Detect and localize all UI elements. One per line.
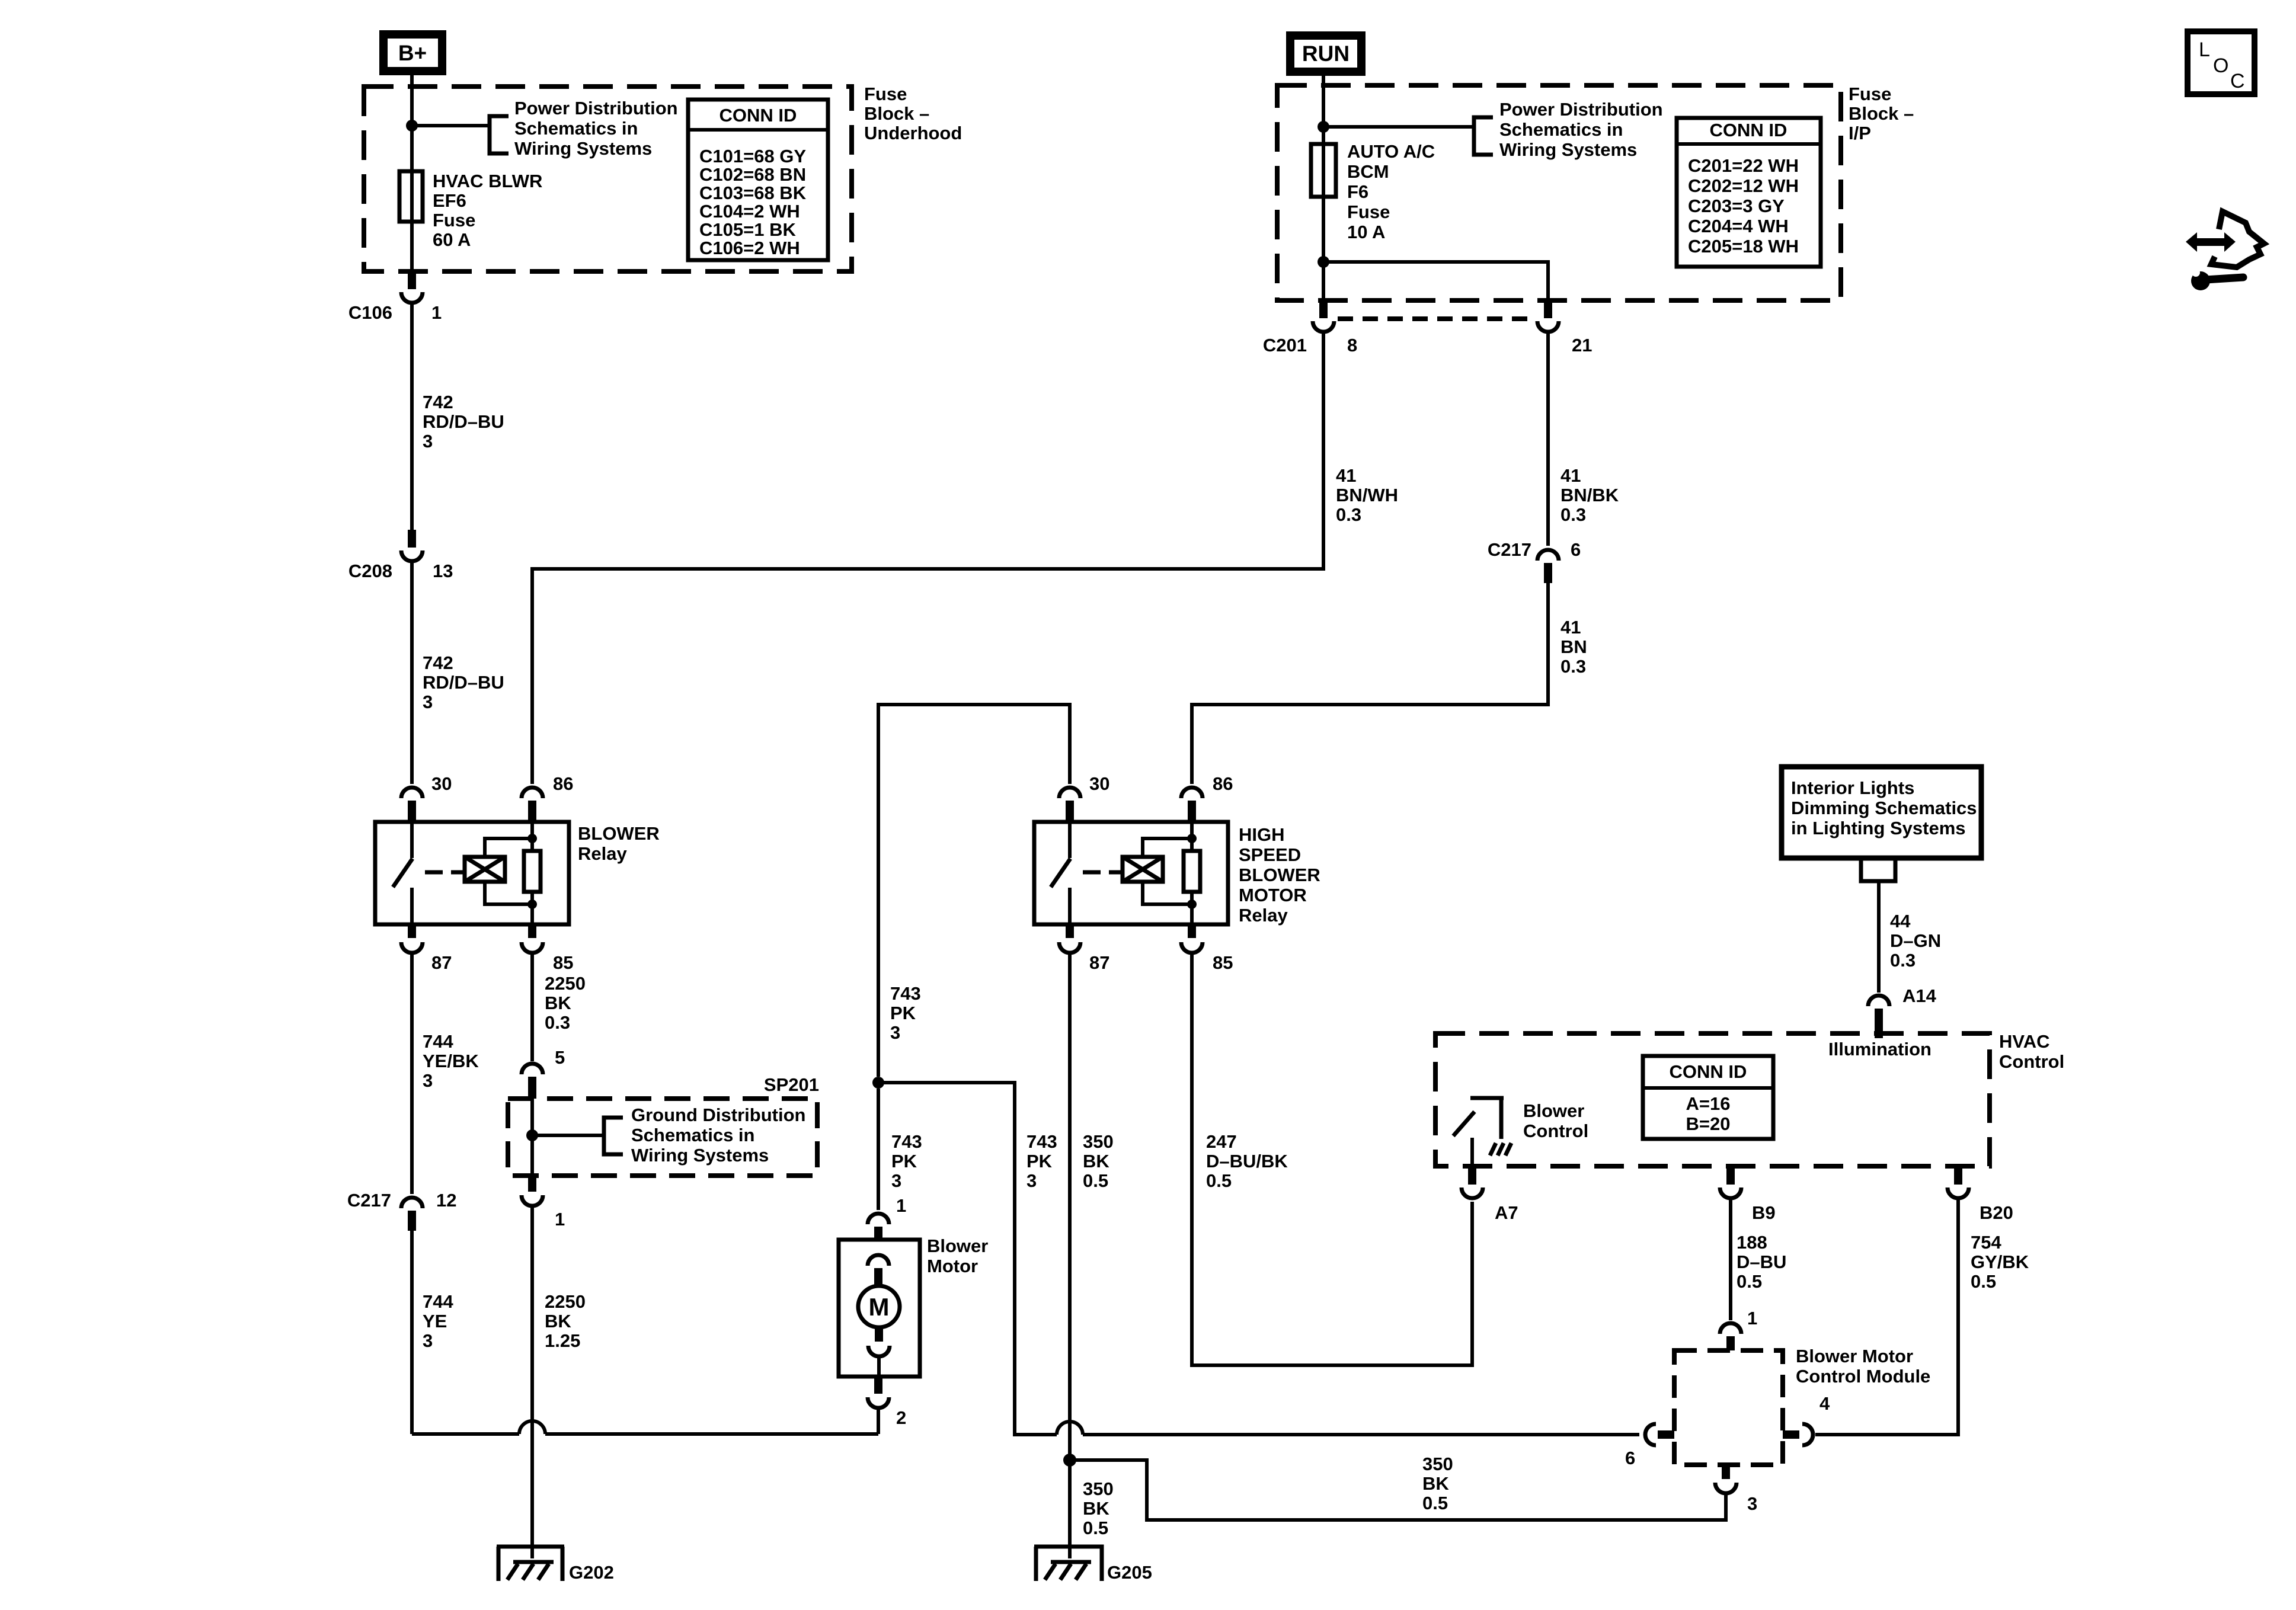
svg-text:BN/WH: BN/WH (1336, 485, 1398, 505)
svg-text:Control: Control (1523, 1121, 1588, 1141)
svg-text:3: 3 (1747, 1493, 1757, 1514)
svg-text:SP201: SP201 (764, 1074, 819, 1095)
motor M symbol (858, 1286, 900, 1327)
svg-text:in Lighting Systems: in Lighting Systems (1791, 818, 1966, 838)
connector pin 5 into SP201 (522, 1064, 543, 1099)
connector C201 pin 8 (1313, 300, 1334, 332)
svg-text:1.25: 1.25 (545, 1330, 580, 1351)
blower motor internal top connector (868, 1255, 889, 1286)
svg-text:8: 8 (1347, 335, 1357, 356)
svg-text:0.5: 0.5 (1971, 1271, 1996, 1292)
relay BLOWER box (375, 822, 569, 924)
svg-text:M: M (869, 1293, 890, 1321)
label 2250 BK 1.25 (545, 1291, 586, 1351)
svg-text:B20: B20 (1980, 1202, 2013, 1223)
svg-text:188: 188 (1737, 1232, 1767, 1253)
splice SP201 dashed box (508, 1099, 817, 1176)
label 41 BN/BK 0.3 (1560, 465, 1619, 525)
interior lights dimming reference box (1782, 767, 1981, 858)
svg-text:D–BU: D–BU (1737, 1251, 1786, 1272)
svg-text:D–BU/BK: D–BU/BK (1206, 1151, 1288, 1172)
svg-text:C208: C208 (348, 561, 392, 581)
svg-text:A7: A7 (1495, 1202, 1518, 1223)
wire 350 BK junction to module pin 3 (1070, 1460, 1726, 1520)
wire RUN to fuse F6 (1322, 72, 1325, 144)
HVAC control dashed box (1435, 1033, 1990, 1166)
svg-text:12: 12 (436, 1190, 456, 1211)
svg-text:247: 247 (1206, 1131, 1237, 1152)
svg-text:2250: 2250 (545, 1291, 586, 1312)
wire 744 YE C217 to ground run (410, 1231, 414, 1434)
svg-text:RD/D–BU: RD/D–BU (423, 672, 504, 693)
connector C208 pin 13 (401, 530, 423, 561)
svg-text:Block –: Block – (1849, 103, 1914, 124)
svg-text:13: 13 (433, 561, 453, 581)
svg-text:87: 87 (1089, 952, 1109, 973)
connector B20 (1948, 1166, 1969, 1198)
svg-text:RUN: RUN (1302, 41, 1350, 66)
wire fuse to C106 (410, 222, 414, 271)
wire 743 PK junction down to motor pin 1 (877, 1089, 880, 1210)
svg-text:G202: G202 (569, 1562, 614, 1583)
blower relay pin 30 connector (401, 788, 423, 822)
module pin 6 connector (1645, 1424, 1674, 1445)
blower motor internal bottom connector (868, 1327, 890, 1356)
svg-text:0.3: 0.3 (1560, 504, 1586, 525)
svg-text:CONN ID: CONN ID (1670, 1061, 1747, 1082)
svg-text:BCM: BCM (1347, 161, 1389, 182)
label 41 BN/WH 0.3 (1336, 465, 1398, 525)
wire 742 RD/D-BU 3 C208 to relay pin 30 (410, 561, 414, 784)
wire junction to schematic reference bracket (right) (1323, 125, 1474, 129)
svg-text:Interior Lights: Interior Lights (1791, 777, 1914, 798)
ground G202 (497, 1544, 564, 1581)
svg-text:AUTO A/C: AUTO A/C (1347, 141, 1435, 162)
svg-text:RD/D–BU: RD/D–BU (423, 411, 504, 432)
svg-text:F6: F6 (1347, 181, 1368, 202)
svg-text:Schematics in: Schematics in (631, 1125, 754, 1145)
svg-text:MOTOR: MOTOR (1239, 885, 1307, 905)
svg-text:0.5: 0.5 (1737, 1271, 1762, 1292)
fork from interior lights box (1861, 858, 1895, 881)
wire motor pin 2 to ground run (877, 1408, 880, 1434)
svg-text:Schematics in: Schematics in (514, 118, 638, 139)
connector A7 (1462, 1166, 1483, 1198)
svg-text:Motor: Motor (927, 1256, 978, 1276)
node junction to pin 21 branch (1318, 256, 1329, 268)
svg-text:Wiring Systems: Wiring Systems (514, 138, 652, 159)
reference bracket power distribution (left) (490, 116, 509, 153)
svg-text:21: 21 (1572, 335, 1592, 356)
svg-text:4: 4 (1819, 1393, 1830, 1414)
ground G205 (1034, 1544, 1102, 1581)
svg-text:0.5: 0.5 (1206, 1170, 1232, 1191)
svg-text:BK: BK (1083, 1151, 1109, 1172)
svg-text:C204=4 WH: C204=4 WH (1688, 216, 1789, 236)
svg-text:350: 350 (1422, 1454, 1453, 1474)
label 743 PK 3 (upper) (890, 983, 921, 1043)
svg-text:Power Distribution: Power Distribution (514, 98, 678, 119)
navigation arrows icon (2186, 212, 2264, 267)
label HVAC BLWR EF6 Fuse 60 A (433, 171, 542, 250)
svg-text:BK: BK (1422, 1473, 1449, 1494)
svg-text:Fuse: Fuse (1849, 84, 1891, 104)
label 754 GY/BK 0.5 (1971, 1232, 2029, 1292)
wire motor to pin 2 (877, 1356, 881, 1377)
label 742 RD/D-BU 3 (lower) (423, 652, 504, 712)
svg-text:3: 3 (1027, 1170, 1037, 1191)
svg-text:CONN ID: CONN ID (1710, 120, 1787, 140)
svg-text:1: 1 (896, 1195, 906, 1216)
connector C106 pin 1 (401, 271, 423, 303)
blower relay actuator dashed link (425, 870, 464, 875)
blower relay switch contact (393, 822, 412, 924)
wire 742 RD/D-BU 3 C106 to C208 (410, 303, 414, 530)
label AUTO A/C BCM F6 Fuse 10 A (1347, 141, 1435, 242)
svg-text:6: 6 (1625, 1448, 1635, 1468)
wire junction to schematic reference bracket (412, 124, 490, 127)
connector C217 pin 12 (401, 1198, 423, 1231)
label Blower Control (1523, 1100, 1588, 1141)
blower relay pin 87 connector (401, 924, 423, 953)
power terminal B+ (383, 34, 442, 71)
blower motor box (839, 1240, 920, 1377)
svg-text:BK: BK (545, 1311, 571, 1331)
svg-text:Wiring Systems: Wiring Systems (631, 1145, 769, 1166)
module pin 3 connector (1715, 1465, 1737, 1493)
svg-text:754: 754 (1971, 1232, 2001, 1253)
label Fuse Block - I/P (1849, 84, 1914, 143)
svg-text:PK: PK (1027, 1151, 1053, 1172)
svg-text:Schematics in: Schematics in (1499, 119, 1623, 140)
svg-text:41: 41 (1560, 465, 1581, 486)
wire through SP201 (530, 1099, 534, 1176)
svg-text:Ground Distribution: Ground Distribution (631, 1105, 805, 1125)
relay HIGH SPEED BLOWER MOTOR box (1034, 822, 1228, 924)
svg-text:EF6: EF6 (433, 190, 466, 211)
label 742 RD/D-BU 3 (upper) (423, 392, 504, 452)
svg-text:B+: B+ (398, 41, 427, 65)
svg-text:CONN ID: CONN ID (720, 105, 797, 126)
HS relay resistor (1184, 822, 1200, 924)
svg-text:BLOWER: BLOWER (1239, 865, 1320, 885)
svg-text:10 A: 10 A (1347, 222, 1385, 242)
svg-text:PK: PK (890, 1003, 916, 1023)
svg-text:3: 3 (890, 1022, 900, 1043)
svg-text:B9: B9 (1752, 1202, 1776, 1223)
label HVAC Control (1999, 1031, 2064, 1072)
fuse block I/P dashed box (1277, 85, 1841, 300)
svg-text:87: 87 (431, 952, 452, 973)
svg-text:Dimming Schematics: Dimming Schematics (1791, 798, 1977, 818)
wire 41 BN 0.3 from C217-6 to high speed relay 86 (1192, 583, 1548, 784)
svg-text:Relay: Relay (1239, 905, 1288, 926)
label BLOWER Relay (578, 823, 660, 864)
svg-text:HVAC: HVAC (1999, 1031, 2050, 1052)
svg-text:3: 3 (423, 692, 433, 712)
svg-text:2250: 2250 (545, 973, 586, 994)
power terminal RUN (1290, 36, 1361, 72)
svg-text:0.5: 0.5 (1083, 1518, 1108, 1538)
CONN ID table HVAC (1643, 1056, 1773, 1139)
fuse F6 AUTO A/C BCM 10A (1311, 144, 1336, 197)
blower relay coil wiring to resistor (485, 834, 537, 909)
wire 44 D-GN 0.3 to A14 (1877, 881, 1881, 993)
wire fuse F6 down to C201 pin 8 (1322, 197, 1325, 300)
svg-text:L: L (2199, 39, 2210, 61)
label Blower Motor (927, 1235, 988, 1276)
wrench icon (2191, 268, 2243, 290)
label 744 YE 3 (423, 1291, 453, 1351)
svg-text:BN: BN (1560, 636, 1587, 657)
svg-text:Fuse: Fuse (864, 84, 907, 104)
svg-text:C105=1 BK: C105=1 BK (699, 219, 796, 240)
blower motor pin 2 connector (868, 1377, 889, 1408)
label 2250 BK 0.3 (545, 973, 586, 1033)
HS relay coil (1123, 857, 1163, 882)
blower relay pin 86 connector (522, 788, 543, 822)
label 188 D-BU 0.5 (1737, 1232, 1786, 1292)
wire 350 BK HS relay 87 to G205 (1068, 953, 1072, 1544)
svg-text:0.5: 0.5 (1422, 1493, 1448, 1513)
svg-text:Blower: Blower (1523, 1100, 1584, 1121)
module pin 4 connector (1783, 1424, 1813, 1445)
blower motor control module dashed box (1674, 1350, 1783, 1465)
svg-text:GY/BK: GY/BK (1971, 1251, 2029, 1272)
svg-text:85: 85 (553, 952, 573, 973)
svg-text:PK: PK (891, 1151, 917, 1172)
connector B9 (1720, 1166, 1741, 1198)
label 350 BK 0.5 (relay leg) (1083, 1131, 1114, 1191)
splice node motor feed (872, 1077, 884, 1089)
svg-text:86: 86 (1213, 773, 1233, 794)
svg-text:BLOWER: BLOWER (578, 823, 660, 844)
connector C217 pin 6 (1537, 550, 1559, 583)
label 743 PK 3 (branch leg) (1027, 1131, 1057, 1191)
wire 2250 BK 1.25 to G202 (530, 1206, 534, 1544)
HS relay pin 85 connector (1181, 924, 1203, 953)
svg-text:HVAC BLWR: HVAC BLWR (433, 171, 542, 191)
svg-text:86: 86 (553, 773, 573, 794)
svg-text:60 A: 60 A (433, 229, 471, 250)
svg-text:YE: YE (423, 1311, 447, 1331)
fuse EF6 HVAC BLWR 60A (399, 171, 423, 222)
HS relay actuator dashed link (1083, 870, 1122, 875)
connector A14 (1868, 996, 1889, 1038)
svg-text:Illumination: Illumination (1828, 1039, 1932, 1060)
svg-text:BN/BK: BN/BK (1560, 485, 1619, 505)
svg-text:C103=68 BK: C103=68 BK (699, 183, 807, 203)
svg-text:C201: C201 (1263, 335, 1307, 356)
svg-text:A14: A14 (1902, 985, 1937, 1006)
label Blower Motor Control Module (1796, 1346, 1930, 1387)
svg-text:0.3: 0.3 (545, 1012, 570, 1033)
label 41 BN 0.3 (1560, 617, 1587, 677)
wire 2250 BK 0.3 relay 85 down (530, 953, 534, 1061)
HS relay switch contact (1051, 822, 1070, 924)
svg-text:41: 41 (1336, 465, 1356, 486)
reference bracket ground distribution (604, 1118, 623, 1154)
HS relay coil wiring to resistor (1143, 834, 1197, 909)
HS relay pin 87 connector (1059, 924, 1080, 953)
module pin 1 connector (1720, 1323, 1741, 1350)
svg-text:I/P: I/P (1849, 123, 1871, 143)
svg-text:743: 743 (1027, 1131, 1057, 1152)
svg-text:C104=2 WH: C104=2 WH (699, 201, 800, 222)
svg-text:C203=3 GY: C203=3 GY (1688, 196, 1785, 216)
svg-text:Power Distribution: Power Distribution (1499, 99, 1663, 120)
fuse block underhood dashed box (364, 87, 852, 271)
svg-text:5: 5 (555, 1047, 565, 1068)
wire splice to ground distribution bracket (532, 1134, 604, 1137)
wire 743 PK branch junction to module pin 6 (hops 350 BK) (878, 1083, 1639, 1435)
svg-text:0.3: 0.3 (1890, 950, 1916, 971)
locator LOC icon box (2188, 31, 2255, 94)
svg-text:HIGH: HIGH (1239, 824, 1285, 845)
svg-text:44: 44 (1890, 911, 1911, 932)
svg-text:744: 744 (423, 1031, 453, 1052)
svg-text:O: O (2213, 55, 2228, 77)
svg-text:Fuse: Fuse (433, 210, 475, 231)
node junction on B+ feed (406, 120, 418, 132)
svg-text:350: 350 (1083, 1478, 1114, 1499)
svg-text:0.3: 0.3 (1336, 504, 1361, 525)
blower motor pin 1 connector (868, 1214, 889, 1240)
svg-text:743: 743 (891, 1131, 922, 1152)
label 743 PK 3 (motor leg) (891, 1131, 922, 1191)
svg-text:A=16: A=16 (1686, 1093, 1731, 1114)
label 350 BK 0.5 (module leg) (1422, 1454, 1453, 1513)
node junction on RUN feed (1318, 121, 1329, 133)
svg-text:Fuse: Fuse (1347, 201, 1390, 222)
wire 188 D-BU B9 to module pin 1 (1729, 1198, 1732, 1320)
svg-text:Relay: Relay (578, 843, 627, 864)
svg-text:D–GN: D–GN (1890, 930, 1941, 951)
svg-text:C202=12 WH: C202=12 WH (1688, 175, 1799, 196)
svg-text:Control Module: Control Module (1796, 1366, 1930, 1387)
svg-text:2: 2 (896, 1407, 906, 1428)
svg-text:Underhood: Underhood (864, 123, 962, 143)
svg-text:YE/BK: YE/BK (423, 1051, 479, 1071)
svg-text:6: 6 (1571, 539, 1581, 560)
svg-text:0.3: 0.3 (1560, 656, 1586, 677)
blower relay coil (465, 857, 505, 882)
label Ground Distribution Schematics in Wiring Systems (631, 1105, 805, 1166)
svg-text:350: 350 (1083, 1131, 1114, 1152)
label Power Distribution Schematics in Wiring Systems (right) (1499, 99, 1663, 160)
svg-text:Wiring Systems: Wiring Systems (1499, 139, 1637, 160)
label 247 D-BU/BK 0.5 (1206, 1131, 1288, 1191)
svg-text:1: 1 (555, 1209, 565, 1230)
svg-text:C217: C217 (347, 1190, 391, 1211)
wire 41 BN/WH 0.3 from C201-8 to blower relay 86 (532, 332, 1323, 784)
svg-text:1: 1 (1747, 1308, 1757, 1329)
label 350 BK 0.5 (ground leg) (1083, 1478, 1114, 1538)
svg-text:C205=18 WH: C205=18 WH (1688, 236, 1799, 257)
svg-text:742: 742 (423, 392, 453, 412)
svg-text:742: 742 (423, 652, 453, 673)
wire 41 BN/BK 0.3 from C201-21 to C217-6 (1546, 332, 1550, 546)
svg-text:BK: BK (1083, 1498, 1109, 1519)
svg-text:3: 3 (423, 431, 433, 452)
connector C201 pin 21 (1537, 300, 1559, 332)
label Power Distribution Schematics in Wiring Systems (left) (514, 98, 678, 159)
label HIGH SPEED BLOWER MOTOR Relay (1239, 824, 1320, 926)
splice node SP201 (526, 1129, 538, 1141)
wire 743 PK from HS relay 30 up-left-down to motor junction (878, 705, 1070, 1077)
wire B+ to fuse EF6 (410, 72, 414, 171)
blower relay pin 85 connector (522, 924, 543, 953)
svg-text:743: 743 (890, 983, 921, 1004)
label Fuse Block - Underhood (864, 84, 962, 143)
svg-text:G205: G205 (1107, 1562, 1152, 1583)
svg-text:C106=2 WH: C106=2 WH (699, 238, 800, 258)
wire 247 D-BU/BK HS relay 85 to A7 (1192, 953, 1472, 1365)
CONN ID table underhood (688, 100, 828, 260)
svg-text:C101=68 GY: C101=68 GY (699, 146, 806, 167)
svg-text:3: 3 (423, 1070, 433, 1091)
svg-text:30: 30 (431, 773, 452, 794)
label 744 YE/BK 3 (423, 1031, 479, 1091)
svg-text:0.5: 0.5 (1083, 1170, 1108, 1191)
reference bracket power distribution (right) (1474, 117, 1493, 155)
svg-text:C201=22 WH: C201=22 WH (1688, 155, 1799, 176)
wire 754 GY/BK B20 to module pin 4 (1815, 1198, 1958, 1435)
svg-text:85: 85 (1213, 952, 1233, 973)
high speed relay pin 30 connector (1059, 788, 1080, 822)
svg-text:3: 3 (423, 1330, 433, 1351)
svg-text:Blower Motor: Blower Motor (1796, 1346, 1913, 1366)
CONN ID table I/P (1677, 118, 1821, 267)
svg-text:1: 1 (431, 302, 442, 323)
svg-text:Blower: Blower (927, 1235, 988, 1256)
wire 744 YE/BK relay 87 to C217 (410, 953, 414, 1194)
blower relay resistor (524, 822, 541, 924)
svg-text:B=20: B=20 (1686, 1113, 1731, 1134)
svg-text:744: 744 (423, 1291, 453, 1312)
svg-text:BK: BK (545, 993, 571, 1013)
connector pin 1 below SP201 (522, 1176, 543, 1206)
label 44 D-GN 0.3 (1890, 911, 1941, 971)
svg-text:30: 30 (1089, 773, 1109, 794)
svg-text:Control: Control (1999, 1051, 2064, 1072)
wire bottom-left run to blower motor pin 2 (hops 2250 BK) (412, 1421, 878, 1434)
wire branch to C201 pin 21 (1323, 262, 1548, 300)
dotted connector tie line C201 (1338, 316, 1535, 321)
svg-text:41: 41 (1560, 617, 1581, 638)
svg-text:Block –: Block – (864, 103, 929, 124)
ground node G205 junction (1063, 1454, 1076, 1467)
svg-text:C: C (2230, 70, 2245, 92)
svg-text:C106: C106 (348, 302, 392, 323)
svg-text:C102=68 BN: C102=68 BN (699, 164, 806, 185)
svg-text:3: 3 (891, 1170, 901, 1191)
blower control switch (1453, 1098, 1511, 1166)
high speed relay pin 86 connector (1181, 788, 1203, 822)
svg-text:SPEED: SPEED (1239, 844, 1301, 865)
svg-text:C217: C217 (1488, 539, 1531, 560)
